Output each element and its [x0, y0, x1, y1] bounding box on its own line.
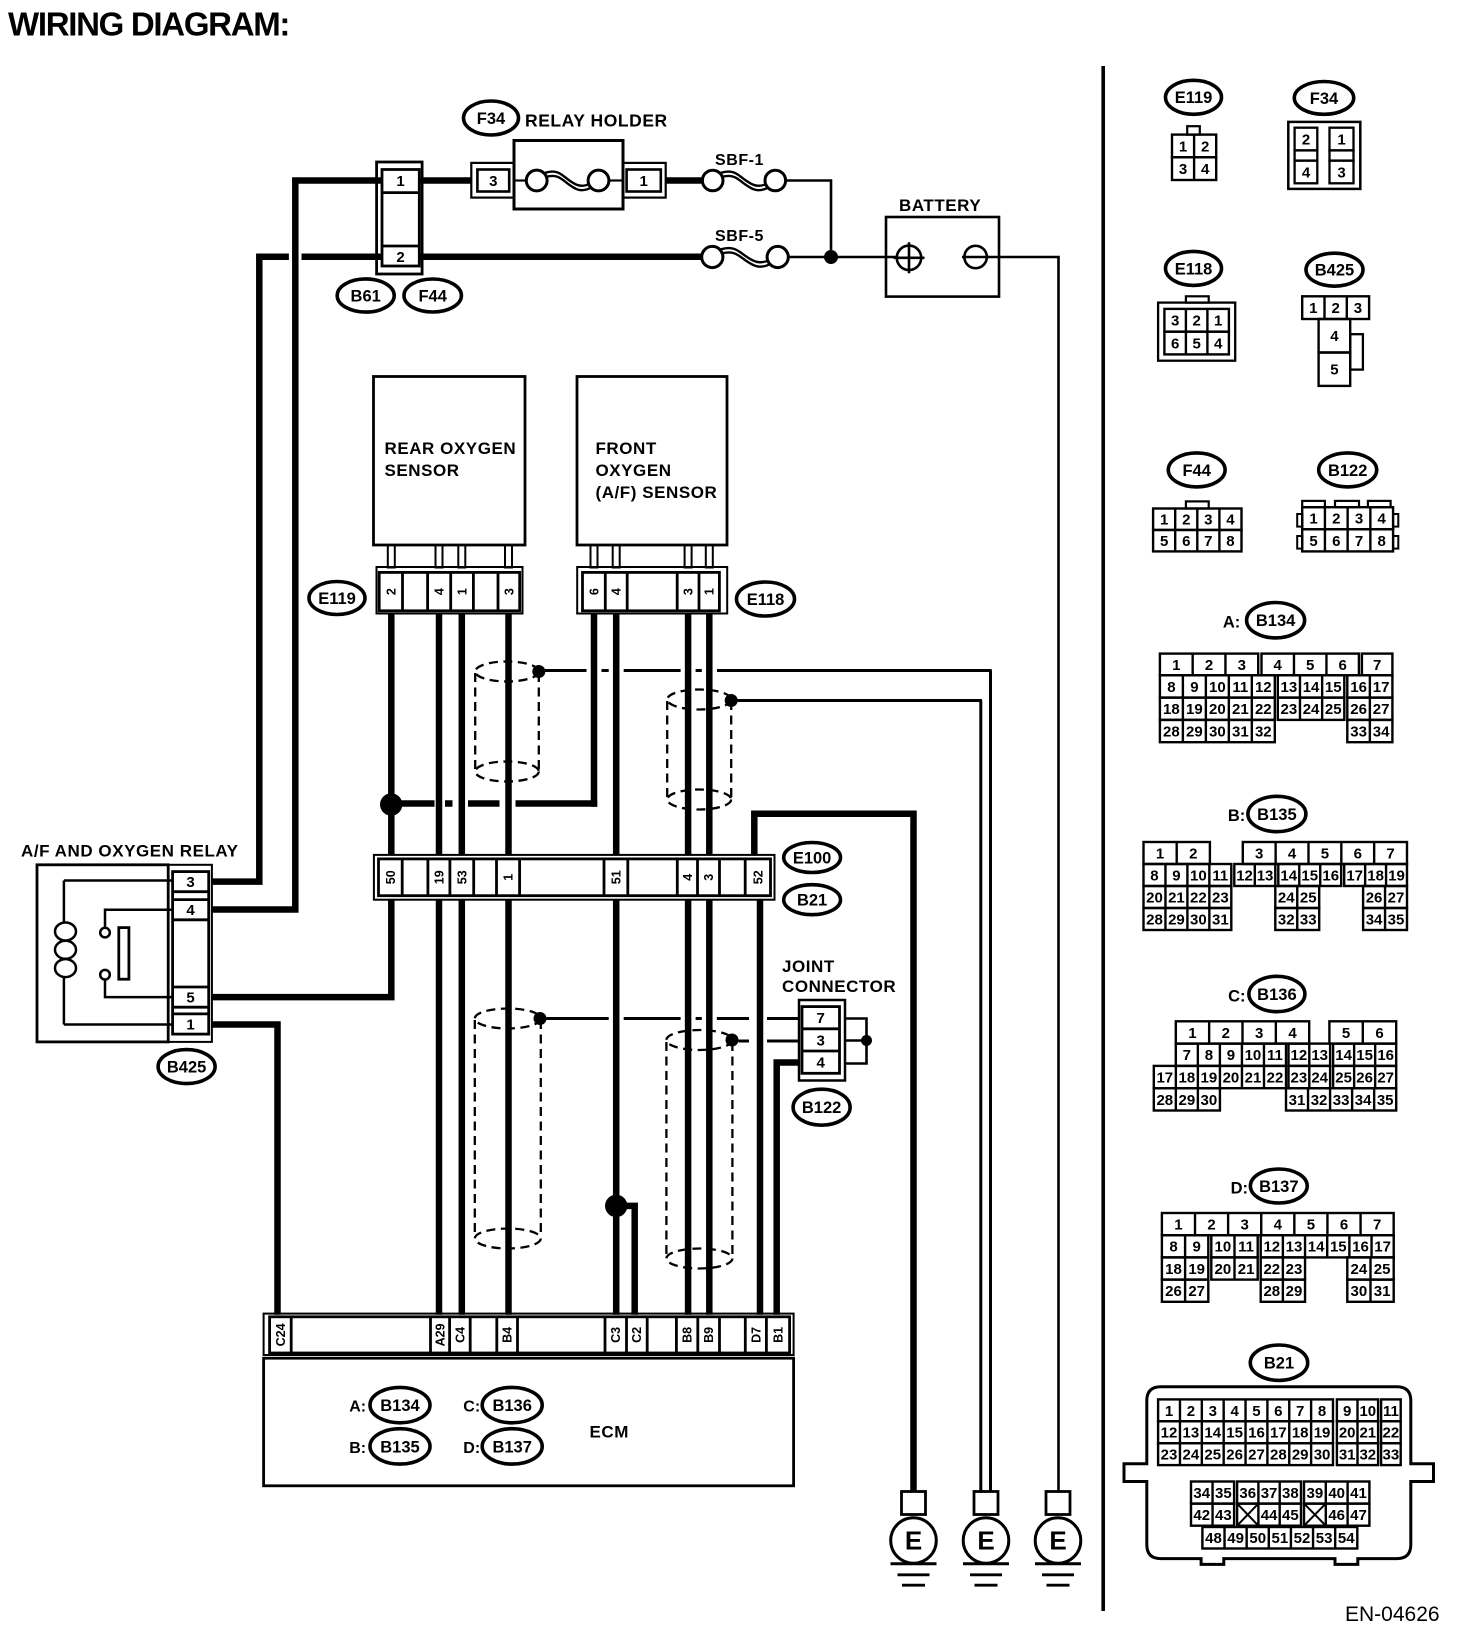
svg-text:18: 18: [1292, 1425, 1309, 1442]
oval label B425: [158, 1050, 215, 1084]
svg-text:8: 8: [1167, 679, 1175, 696]
svg-text:B135: B135: [1257, 806, 1296, 824]
svg-text:B:: B:: [349, 1440, 366, 1457]
wire: relay pin 5 to E100-50 net: [212, 900, 391, 1001]
svg-text:17: 17: [1373, 679, 1390, 696]
svg-text:F34: F34: [1310, 90, 1339, 108]
svg-text:19: 19: [1314, 1425, 1331, 1442]
svg-text:16: 16: [1377, 1047, 1394, 1064]
svg-text:23: 23: [1161, 1447, 1178, 1464]
svg-text:19: 19: [1201, 1069, 1218, 1086]
svg-text:F44: F44: [418, 287, 447, 305]
svg-text:RELAY HOLDER: RELAY HOLDER: [525, 111, 668, 131]
svg-text:(A/F) SENSOR: (A/F) SENSOR: [596, 483, 718, 502]
svg-text:6: 6: [1274, 1403, 1282, 1420]
oval label B122: [793, 1089, 850, 1125]
svg-text:33: 33: [1383, 1447, 1400, 1464]
svg-text:17: 17: [1346, 867, 1363, 884]
svg-text:3: 3: [1238, 657, 1246, 674]
svg-text:53: 53: [455, 870, 469, 884]
svg-text:A/F AND OXYGEN RELAY: A/F AND OXYGEN RELAY: [21, 842, 239, 861]
svg-text:2: 2: [384, 588, 398, 595]
svg-text:A29: A29: [434, 1323, 448, 1346]
svg-text:36: 36: [1239, 1485, 1256, 1502]
svg-text:21: 21: [1232, 701, 1249, 718]
svg-text:18: 18: [1165, 1261, 1182, 1278]
svg-text:20: 20: [1215, 1261, 1232, 1278]
svg-text:2: 2: [1222, 1025, 1230, 1042]
svg-text:B4: B4: [501, 1327, 515, 1343]
svg-text:4: 4: [1288, 845, 1297, 862]
svg-text:5: 5: [1342, 1025, 1350, 1042]
svg-text:50: 50: [384, 870, 398, 884]
wire: E100-52 to ECM D7: [757, 900, 764, 1315]
svg-text:8: 8: [1150, 867, 1158, 884]
svg-text:9: 9: [1172, 867, 1180, 884]
wire: battery negative to ground riser: [987, 257, 1059, 1491]
svg-text:16: 16: [1352, 1239, 1369, 1256]
relay switch contacts: [100, 928, 110, 938]
svg-text:27: 27: [1388, 889, 1405, 906]
svg-text:15: 15: [1301, 867, 1318, 884]
svg-text:48: 48: [1205, 1530, 1222, 1547]
svg-text:3: 3: [1179, 161, 1187, 178]
svg-text:4: 4: [1226, 512, 1235, 529]
svg-text:24: 24: [1278, 889, 1295, 906]
svg-text:A:: A:: [1223, 614, 1240, 632]
svg-text:4: 4: [433, 588, 447, 595]
wire: joint connector pin 4 down to ECM B1: [777, 1063, 800, 1315]
svg-text:F34: F34: [477, 110, 506, 128]
svg-text:29: 29: [1292, 1447, 1309, 1464]
svg-text:6: 6: [1338, 657, 1346, 674]
svg-text:47: 47: [1350, 1507, 1367, 1524]
svg-text:9: 9: [1193, 1239, 1201, 1256]
svg-text:30: 30: [1190, 911, 1207, 928]
svg-text:35: 35: [1215, 1485, 1232, 1502]
svg-text:4: 4: [1302, 165, 1311, 182]
svg-text:3: 3: [702, 874, 716, 881]
wire: B61 pin2 left to riser (gap hop at crossing), down to relay pin 3: [262, 254, 289, 261]
svg-text:26: 26: [1226, 1447, 1243, 1464]
svg-text:B1: B1: [772, 1327, 786, 1343]
svg-text:BATTERY: BATTERY: [899, 196, 981, 215]
svg-text:JOINT: JOINT: [782, 957, 835, 976]
svg-text:27: 27: [1373, 701, 1390, 718]
svg-text:13: 13: [1281, 679, 1298, 696]
svg-text:E118: E118: [1175, 260, 1213, 278]
svg-text:6: 6: [1340, 1217, 1348, 1234]
svg-text:E: E: [977, 1526, 994, 1556]
svg-text:D7: D7: [749, 1327, 763, 1343]
wire: upper-left shield drain to ground (with crossing hops): [545, 669, 587, 672]
svg-text:20: 20: [1146, 889, 1163, 906]
svg-text:5: 5: [1252, 1403, 1260, 1420]
battery box: [886, 217, 999, 297]
svg-text:13: 13: [1311, 1047, 1328, 1064]
svg-text:SENSOR: SENSOR: [385, 461, 460, 480]
wire: SBF-5 to battery positive: [788, 256, 897, 259]
svg-text:10: 10: [1209, 679, 1226, 696]
rear oxygen sensor box: [374, 377, 526, 546]
ground E #3: [1046, 1492, 1070, 1515]
svg-text:6: 6: [1332, 533, 1340, 550]
svg-text:9: 9: [1190, 679, 1198, 696]
svg-text:E119: E119: [318, 590, 356, 608]
svg-text:3: 3: [1355, 511, 1363, 528]
oval label E118: [737, 582, 795, 616]
svg-text:4: 4: [1330, 328, 1339, 345]
svg-text:24: 24: [1311, 1069, 1328, 1086]
svg-text:4: 4: [1274, 1217, 1283, 1234]
svg-text:1: 1: [1214, 313, 1222, 330]
svg-text:11: 11: [1232, 679, 1248, 696]
svg-text:7: 7: [1296, 1403, 1304, 1420]
svg-text:1: 1: [1309, 300, 1317, 317]
shield around E118-3/E118-1 wires (upper right): [667, 690, 731, 710]
svg-text:31: 31: [1289, 1092, 1306, 1109]
svg-text:32: 32: [1278, 911, 1295, 928]
svg-text:33: 33: [1350, 723, 1367, 740]
svg-text:B135: B135: [380, 1438, 419, 1456]
svg-text:1: 1: [1156, 845, 1164, 862]
wire: upper-right shield drain to ground: [738, 699, 983, 702]
svg-text:E: E: [905, 1526, 922, 1556]
svg-text:10: 10: [1215, 1239, 1232, 1256]
svg-text:33: 33: [1333, 1092, 1350, 1109]
front sensor pin stubs: [591, 545, 598, 568]
svg-text:B21: B21: [1264, 1355, 1294, 1373]
svg-text:7: 7: [1373, 657, 1381, 674]
wire: E119-4 down to E100-19: [436, 614, 443, 856]
svg-text:35: 35: [1388, 911, 1405, 928]
svg-text:5: 5: [1321, 845, 1329, 862]
svg-text:12: 12: [1161, 1425, 1178, 1442]
junction node: SBF-1/SBF-5/battery: [824, 250, 838, 264]
wire: E118-4 down to E100-51: [613, 614, 620, 856]
svg-text:2: 2: [1189, 845, 1197, 862]
svg-text:2: 2: [1187, 1403, 1195, 1420]
shield drain node (lower right): [726, 1034, 739, 1047]
svg-text:2: 2: [396, 249, 404, 266]
svg-text:1: 1: [640, 173, 648, 190]
svg-text:46: 46: [1328, 1507, 1345, 1524]
svg-text:26: 26: [1165, 1283, 1182, 1300]
svg-text:25: 25: [1204, 1447, 1221, 1464]
svg-text:34: 34: [1355, 1092, 1372, 1109]
svg-text:12: 12: [1263, 1239, 1280, 1256]
svg-text:41: 41: [1350, 1485, 1367, 1502]
svg-text:30: 30: [1201, 1092, 1218, 1109]
svg-text:20: 20: [1223, 1069, 1240, 1086]
svg-text:52: 52: [751, 870, 765, 884]
connector B61/F44 (2-pin vertical): [377, 162, 423, 274]
svg-text:1: 1: [502, 874, 516, 881]
svg-text:3: 3: [1204, 512, 1212, 529]
svg-text:ECM: ECM: [590, 1423, 629, 1442]
svg-text:38: 38: [1282, 1485, 1299, 1502]
svg-text:B425: B425: [1315, 262, 1354, 280]
svg-text:21: 21: [1238, 1261, 1255, 1278]
wire: B61 pin1 to relay holder pin 3: [419, 177, 471, 184]
svg-text:20: 20: [1339, 1425, 1356, 1442]
wire: E100-19 to ECM A29: [436, 900, 443, 1315]
svg-text:5: 5: [186, 990, 194, 1007]
svg-text:28: 28: [1146, 911, 1163, 928]
vertical divider line between schematic and connector views: [1101, 66, 1105, 1611]
connector view F34: [1294, 82, 1353, 115]
connector view B21: [1250, 1345, 1307, 1380]
svg-text:1: 1: [396, 173, 404, 190]
svg-text:B134: B134: [380, 1397, 420, 1415]
wire: branch to ECM C2: [616, 1206, 635, 1315]
svg-text:21: 21: [1359, 1425, 1376, 1442]
svg-text:B137: B137: [492, 1438, 531, 1456]
connector view E119: [1166, 80, 1222, 114]
svg-text:28: 28: [1263, 1283, 1280, 1300]
svg-text:1: 1: [1337, 132, 1345, 149]
svg-text:34: 34: [1366, 911, 1383, 928]
B21 connector outline: [1124, 1387, 1434, 1565]
svg-text:45: 45: [1282, 1507, 1299, 1524]
svg-text:30: 30: [1314, 1447, 1331, 1464]
junction node on E119-2 net: [380, 793, 402, 815]
svg-text:21: 21: [1168, 889, 1185, 906]
oval label E119: [309, 582, 365, 615]
svg-text:A:: A:: [349, 1399, 366, 1416]
svg-text:23: 23: [1281, 701, 1298, 718]
svg-text:4: 4: [186, 902, 195, 919]
svg-text:18: 18: [1179, 1069, 1196, 1086]
svg-text:14: 14: [1335, 1047, 1352, 1064]
svg-text:7: 7: [1386, 845, 1394, 862]
wire: B61 pin2 to SBF-5: [419, 254, 702, 261]
fuse SBF-1: [702, 170, 723, 191]
svg-text:50: 50: [1249, 1530, 1266, 1547]
svg-text:15: 15: [1226, 1425, 1243, 1442]
svg-text:B:: B:: [1228, 807, 1245, 825]
svg-text:C4: C4: [453, 1327, 467, 1343]
svg-text:OXYGEN: OXYGEN: [596, 461, 672, 480]
svg-text:29: 29: [1168, 911, 1185, 928]
svg-text:18: 18: [1367, 867, 1384, 884]
shield drain node (upper right): [725, 694, 738, 707]
wire: E100-52 up and over to ground E: [754, 814, 913, 1492]
svg-text:8: 8: [1318, 1403, 1326, 1420]
wire: lower-left shield drain to joint connector pin 7: [547, 1017, 609, 1020]
svg-text:6: 6: [1182, 533, 1190, 550]
svg-text:5: 5: [1309, 533, 1317, 550]
svg-text:40: 40: [1328, 1485, 1345, 1502]
wire: E119-3 down to E100-1 (shielded): [505, 614, 512, 856]
wire: E118-1 down to E100-3 (shielded): [706, 614, 713, 856]
svg-text:13: 13: [1257, 867, 1274, 884]
svg-text:6: 6: [1354, 845, 1362, 862]
joint connector B122: [799, 1000, 845, 1081]
svg-text:18: 18: [1163, 701, 1180, 718]
svg-text:31: 31: [1374, 1283, 1391, 1300]
svg-text:4: 4: [1230, 1403, 1239, 1420]
svg-text:SBF-1: SBF-1: [715, 152, 764, 169]
relay holder connector pin 3: [471, 163, 514, 198]
oval label F44: [404, 279, 461, 312]
svg-text:21: 21: [1245, 1069, 1262, 1086]
svg-text:2: 2: [1207, 1217, 1215, 1234]
svg-text:29: 29: [1286, 1283, 1303, 1300]
svg-text:3: 3: [1209, 1403, 1217, 1420]
svg-text:1: 1: [1309, 511, 1317, 528]
svg-text:D:: D:: [1231, 1180, 1248, 1198]
svg-text:30: 30: [1351, 1283, 1368, 1300]
svg-text:3: 3: [682, 588, 696, 595]
main fuse inside relay holder: [514, 179, 527, 181]
svg-text:3: 3: [186, 874, 194, 891]
svg-text:24: 24: [1303, 701, 1320, 718]
connector strip E118: [577, 567, 727, 614]
svg-text:13: 13: [1183, 1425, 1200, 1442]
svg-text:FRONT: FRONT: [596, 439, 657, 458]
wire: lower-right shield drain to joint connector pin 3: [739, 1040, 750, 1043]
svg-text:3: 3: [1171, 313, 1179, 330]
connector view B122: [1319, 453, 1377, 487]
svg-text:17: 17: [1374, 1239, 1391, 1256]
svg-text:B8: B8: [681, 1327, 695, 1343]
svg-text:1: 1: [1174, 1217, 1182, 1234]
connector view B425: [1306, 253, 1363, 286]
svg-text:4: 4: [610, 588, 624, 595]
svg-text:7: 7: [1204, 533, 1212, 550]
svg-text:C3: C3: [609, 1327, 623, 1343]
svg-text:27: 27: [1188, 1283, 1205, 1300]
svg-text:6: 6: [1375, 1025, 1383, 1042]
relay connector strip B425: [168, 865, 212, 1042]
wire: relay holder pin 1 to SBF-1: [666, 177, 703, 184]
svg-text:REAR OXYGEN: REAR OXYGEN: [385, 439, 517, 458]
svg-text:3: 3: [1255, 1025, 1263, 1042]
wire: E119-2 down to E100-50: [388, 614, 395, 856]
svg-text:B136: B136: [492, 1397, 531, 1415]
rear sensor pin stubs: [388, 545, 395, 568]
shield drain node (lower left): [534, 1012, 547, 1025]
wire: E100-4 to ECM B8 (shielded): [685, 900, 692, 1315]
svg-text:16: 16: [1248, 1425, 1265, 1442]
svg-text:22: 22: [1267, 1069, 1284, 1086]
svg-text:3: 3: [1255, 845, 1263, 862]
svg-text:51: 51: [1272, 1530, 1289, 1547]
svg-text:53: 53: [1316, 1530, 1333, 1547]
wire: E100-3 to ECM B9 (shielded): [706, 900, 713, 1315]
svg-text:26: 26: [1350, 701, 1367, 718]
svg-text:25: 25: [1300, 889, 1317, 906]
svg-text:8: 8: [1378, 533, 1386, 550]
svg-text:SBF-5: SBF-5: [715, 228, 764, 245]
svg-text:15: 15: [1356, 1047, 1373, 1064]
oval label E100: [784, 843, 841, 873]
ECM box: [264, 1358, 794, 1486]
svg-text:23: 23: [1291, 1069, 1308, 1086]
ground E #2: [974, 1492, 998, 1515]
svg-text:31: 31: [1232, 723, 1249, 740]
svg-text:25: 25: [1335, 1069, 1352, 1086]
A/F and oxygen relay box: [37, 865, 168, 1042]
svg-text:10: 10: [1359, 1403, 1376, 1420]
relay switch blade: [119, 928, 129, 980]
svg-text:7: 7: [1373, 1217, 1381, 1234]
svg-text:6: 6: [588, 588, 602, 595]
svg-text:9: 9: [1343, 1403, 1351, 1420]
svg-text:19: 19: [1188, 1261, 1205, 1278]
battery negative terminal: [964, 246, 986, 268]
svg-text:27: 27: [1377, 1069, 1394, 1086]
svg-text:B136: B136: [1257, 986, 1296, 1004]
wire: E100-53 to ECM C4: [459, 900, 466, 1315]
svg-text:16: 16: [1350, 679, 1367, 696]
svg-text:29: 29: [1186, 723, 1203, 740]
svg-text:E119: E119: [1175, 89, 1213, 107]
svg-text:D:: D:: [463, 1440, 480, 1457]
svg-text:42: 42: [1193, 1507, 1210, 1524]
svg-text:26: 26: [1356, 1069, 1373, 1086]
svg-text:5: 5: [1307, 1217, 1315, 1234]
svg-text:C:: C:: [463, 1399, 480, 1416]
svg-text:4: 4: [1378, 511, 1387, 528]
svg-text:12: 12: [1255, 679, 1272, 696]
wire: SBF-1 to junction: [786, 181, 831, 251]
svg-text:EN-04626: EN-04626: [1345, 1603, 1440, 1626]
svg-text:3: 3: [1337, 165, 1345, 182]
svg-text:1: 1: [1160, 512, 1168, 529]
connector view E118: [1166, 251, 1222, 285]
shield around E100-4/3 wires (lower right): [666, 1030, 732, 1050]
shield around E119-3 wire (upper left): [475, 662, 539, 682]
svg-text:32: 32: [1311, 1092, 1328, 1109]
svg-text:12: 12: [1236, 867, 1253, 884]
svg-text:24: 24: [1183, 1447, 1200, 1464]
oval label F34 (relay holder): [464, 101, 519, 135]
svg-text:35: 35: [1377, 1092, 1394, 1109]
oval label B21 (strip): [784, 885, 841, 915]
connector strip E100/B21: [374, 855, 775, 900]
svg-text:3: 3: [1241, 1217, 1249, 1234]
svg-text:14: 14: [1204, 1425, 1221, 1442]
svg-text:8: 8: [1226, 533, 1234, 550]
svg-text:49: 49: [1227, 1530, 1244, 1547]
svg-text:5: 5: [1192, 335, 1200, 352]
svg-text:19: 19: [432, 870, 446, 884]
svg-text:37: 37: [1261, 1485, 1278, 1502]
svg-text:B21: B21: [797, 892, 827, 910]
shield drain node (upper left): [532, 665, 545, 678]
svg-text:B134: B134: [1256, 612, 1296, 630]
svg-text:22: 22: [1263, 1261, 1280, 1278]
relay holder F34 box: [514, 141, 623, 210]
svg-text:C2: C2: [630, 1327, 644, 1343]
svg-text:1: 1: [186, 1017, 194, 1034]
svg-text:3: 3: [489, 173, 497, 190]
svg-text:1: 1: [1179, 138, 1187, 155]
svg-text:2: 2: [1182, 512, 1190, 529]
svg-text:4: 4: [1201, 161, 1210, 178]
svg-text:E: E: [1049, 1526, 1066, 1556]
svg-text:E118: E118: [747, 591, 785, 609]
front oxygen (A/F) sensor box: [577, 377, 727, 546]
svg-text:B61: B61: [351, 287, 381, 305]
svg-text:CONNECTOR: CONNECTOR: [782, 977, 896, 996]
svg-text:29: 29: [1179, 1092, 1196, 1109]
svg-text:25: 25: [1374, 1261, 1391, 1278]
svg-text:39: 39: [1307, 1485, 1324, 1502]
svg-text:17: 17: [1270, 1425, 1287, 1442]
